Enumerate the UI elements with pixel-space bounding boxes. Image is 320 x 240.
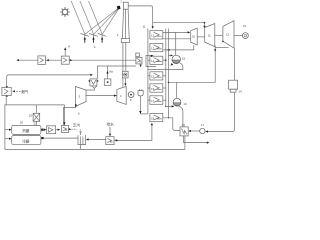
salt pump outlet	[124, 78, 126, 85]
flue HX outlet down	[5, 96, 7, 105]
shaft HP-IP	[197, 36, 205, 38]
cold tank	[12, 135, 41, 144]
incident ray 1	[71, 1, 85, 34]
flask tank	[138, 89, 143, 96]
drum 19	[173, 98, 187, 106]
salt line L1	[18, 59, 136, 61]
HX column box 16	[150, 84, 163, 92]
mixer path from headers	[166, 105, 173, 107]
turbine LP 12	[223, 21, 234, 48]
svg-text:给水: 给水	[107, 122, 115, 127]
bottom bus	[5, 136, 185, 150]
flask drain	[139, 96, 141, 114]
svg-text:热罐: 热罐	[22, 128, 30, 133]
valve to small turbine	[86, 88, 94, 90]
tower body	[122, 9, 129, 38]
valve group right	[104, 79, 111, 85]
heliostat 1	[81, 34, 90, 43]
U tank inlet	[87, 139, 106, 141]
HP exhaust to reheater	[164, 45, 194, 50]
knot hx	[136, 57, 142, 64]
generator 13	[243, 24, 249, 38]
drum2 feed	[176, 82, 178, 98]
right header B	[167, 29, 169, 118]
svg-text:烟气: 烟气	[21, 89, 29, 94]
crossover seg	[215, 47, 228, 49]
svg-text:20: 20	[29, 114, 33, 118]
drum 15 (deaerator)	[172, 55, 186, 63]
U tank 7	[78, 128, 86, 144]
drum1 drain curve	[148, 62, 183, 69]
svg-text:乏汽: 乏汽	[73, 123, 81, 128]
flue gas dashed arrow	[13, 90, 20, 92]
tank inlet valve 20	[29, 105, 40, 126]
stub to 15	[148, 75, 150, 77]
stubs right of boxes	[163, 59, 166, 61]
feedwater box outlet	[114, 124, 152, 140]
receiver (black)	[117, 6, 121, 10]
hot tank	[12, 125, 41, 134]
hot reheat line to IP turbine	[153, 23, 205, 27]
condensate pump 17	[200, 128, 205, 133]
tower downcomer B	[125, 43, 127, 72]
svg-text:19: 19	[183, 102, 187, 106]
small turbine 5	[76, 87, 87, 107]
main steam line to HP turbine	[163, 31, 189, 33]
salt pump A	[47, 126, 56, 134]
svg-text:10: 10	[192, 35, 196, 39]
turbine HP 10	[191, 28, 198, 45]
salt box B	[61, 56, 69, 64]
tank left port cold	[5, 138, 11, 140]
stub to drum1	[168, 54, 172, 56]
vent arrow above box B	[64, 49, 66, 57]
receiver outlet pipe to HX column	[128, 6, 153, 28]
small turbine exhaust	[63, 107, 75, 126]
svg-text:11: 11	[208, 34, 211, 38]
tower head	[123, 2, 128, 9]
tower downcomer A	[122, 43, 124, 87]
cold line box1 to HP	[163, 38, 191, 40]
heliostat 2	[89, 34, 98, 43]
condenser 14	[229, 80, 238, 89]
svg-text:13: 13	[243, 24, 247, 28]
pump B outlet dashed	[69, 128, 72, 130]
drain to flask line	[140, 113, 148, 115]
HX column box 18	[150, 113, 163, 121]
mixer bottom outlet	[184, 136, 208, 143]
drum2 drain to mixer	[178, 106, 183, 127]
svg-text:15: 15	[182, 57, 186, 61]
steam line L3 from flue HX	[7, 75, 92, 87]
stub to 14	[148, 59, 150, 61]
heliostat 3	[98, 34, 107, 43]
feed to pump B	[63, 105, 65, 126]
reflected beam 1	[85, 9, 118, 35]
hot tank right port	[41, 129, 44, 131]
mixer 16	[180, 123, 188, 136]
shaft IP-LP	[215, 34, 223, 36]
right header A	[165, 29, 167, 107]
cold tank right line	[44, 137, 78, 139]
deaerator feed	[175, 32, 177, 55]
flue gas HX	[2, 86, 11, 97]
reflected beam 3	[102, 9, 118, 34]
HX column box 17	[150, 96, 163, 105]
salt pump box	[122, 71, 128, 78]
stub to 16	[148, 87, 150, 89]
U tank bottom to bus	[80, 145, 82, 150]
IP extraction down-left	[168, 45, 215, 82]
reflected beam 2	[94, 9, 119, 35]
svg-text:16: 16	[182, 123, 186, 127]
condensate downcomer	[207, 92, 235, 131]
knot bracket	[146, 56, 156, 67]
svg-text:14: 14	[238, 89, 242, 93]
stack left header	[147, 29, 149, 114]
HX column box 13	[150, 43, 163, 51]
feedwater inlet	[109, 127, 111, 135]
valve group left	[89, 79, 99, 89]
stub to 17	[148, 99, 150, 101]
salt supply line L4	[5, 105, 65, 149]
svg-text:冷罐: 冷罐	[22, 138, 30, 143]
HX column box 12	[150, 31, 163, 39]
salt box A	[38, 56, 46, 65]
turbine IP 11	[205, 24, 215, 47]
pump to mixer	[190, 130, 200, 132]
svg-text:11: 11	[143, 25, 146, 29]
shaft LP-generator	[234, 34, 243, 36]
svg-text:17: 17	[201, 123, 205, 127]
shaft to expander	[86, 95, 117, 97]
HX column box 15	[150, 72, 163, 80]
sun	[61, 8, 70, 17]
valve right stem	[107, 66, 109, 79]
HX column box 14	[150, 56, 163, 64]
salt line L2	[97, 66, 135, 79]
salt pump B box	[61, 126, 68, 133]
svg-text:12: 12	[226, 33, 230, 37]
condensate to pump	[205, 130, 208, 132]
svg-text:20: 20	[20, 121, 24, 125]
molten salt knot: valve box	[136, 53, 140, 57]
knot drain arrow	[140, 65, 142, 68]
expander 4	[117, 86, 126, 104]
tank left port hot	[5, 129, 11, 131]
incident ray 2	[80, 1, 94, 34]
svg-text:21: 21	[34, 122, 38, 126]
motor 9	[128, 92, 134, 103]
svg-text:8a: 8a	[110, 70, 114, 74]
LP exhaust to condenser	[233, 48, 235, 80]
incident ray 3	[89, 1, 103, 34]
feedwater box	[106, 137, 114, 145]
